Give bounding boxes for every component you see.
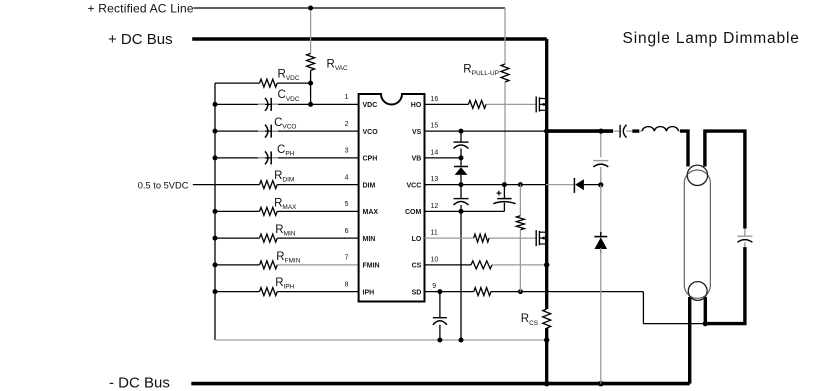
resistor R_FMIN: [260, 261, 278, 269]
wire DIM input line: [193, 184, 359, 186]
svg-text:DIM: DIM: [363, 182, 376, 189]
label R_DIM: [274, 170, 294, 184]
wire FMIN pin line: [215, 264, 359, 266]
wire HO gate line: [425, 103, 537, 105]
wire + Rectified AC Line: [194, 7, 506, 9]
wire R_PULL-UP bottom lead: [504, 82, 506, 185]
diode D_boot: [454, 158, 468, 185]
capacitor C_VCO: [258, 125, 278, 138]
label R_MIN: [275, 224, 296, 238]
wire LO gate line: [425, 237, 537, 239]
wire SD lamp-sense corner: [643, 292, 705, 324]
svg-text:IPH: IPH: [363, 289, 375, 296]
resistor R_PULL-UP: [501, 64, 509, 82]
wire IPH pin line: [215, 291, 359, 293]
svg-text:12: 12: [431, 203, 439, 210]
capacitor C_DC blocking: [613, 125, 632, 138]
node left bus junctions: [213, 102, 218, 294]
svg-text:+ DC Bus: + DC Bus: [108, 31, 173, 48]
node COM junction: [459, 209, 464, 214]
transistor M1 high-side MOSFET: [536, 96, 547, 112]
node VS junction: [459, 128, 550, 133]
wire VCO pin line: [215, 130, 359, 132]
IC pin name labels: [363, 102, 422, 296]
label + Rectified AC Line: [88, 1, 194, 15]
label C_VDC: [278, 89, 300, 103]
capacitor C_SD: [433, 292, 447, 340]
wire VDC pin line: [215, 103, 359, 105]
capacitor C_VCC ceramic: [454, 185, 469, 212]
resistor R_MAX: [260, 207, 278, 215]
wire half-bridge vertical rail: [545, 39, 548, 384]
wire COM return bottom: [215, 339, 547, 341]
node SD junctions: [437, 289, 523, 294]
svg-text:- DC Bus: - DC Bus: [109, 375, 170, 391]
resistor R_VCC-SD vertical: [516, 185, 524, 292]
svg-text:Single Lamp Dimmable: Single Lamp Dimmable: [623, 30, 800, 47]
label 0.5 to 5VDC: [138, 181, 189, 191]
label R_VDC: [278, 68, 300, 82]
node bottom line junctions: [437, 337, 549, 342]
label title Single Lamp Dimmable: [623, 30, 800, 47]
capacitor C_RES resonant: [737, 229, 752, 248]
wire charge pump bottom: [600, 248, 602, 384]
svg-text:16: 16: [431, 96, 439, 103]
wire R_VAC bottom lead: [310, 70, 312, 104]
wire SD pin line: [425, 291, 644, 293]
wire charge pump mid: [600, 185, 602, 237]
svg-text:+ Rectified AC Line: + Rectified AC Line: [88, 1, 194, 15]
svg-text:13: 13: [431, 176, 439, 183]
label C_PH: [277, 144, 295, 158]
svg-text:14: 14: [431, 150, 439, 157]
resistor R_DIM: [260, 181, 278, 189]
svg-text:LO: LO: [412, 236, 422, 243]
wire lamp top-right loop: [705, 131, 745, 228]
resistor R_VDC line: [215, 82, 311, 84]
op-amp U1 ballast control IC: [359, 94, 425, 302]
svg-text:10: 10: [431, 257, 439, 264]
wire VB pin line: [425, 157, 462, 159]
svg-text:CPH: CPH: [363, 156, 378, 163]
label R_IPH: [275, 277, 294, 291]
transistor M2 low-side MOSFET: [536, 230, 547, 246]
wire snubber top lead: [600, 131, 602, 157]
resistor R_CS: [543, 309, 551, 328]
node CS junction: [544, 262, 549, 267]
wire MAX pin line: [215, 210, 359, 212]
svg-text:4: 4: [345, 174, 349, 181]
IC pin numbers: [345, 94, 439, 290]
resistor R_HO gate: [468, 100, 486, 108]
svg-text:VCO: VCO: [363, 129, 379, 136]
svg-text:6: 6: [345, 228, 349, 235]
wire left bias bus: [214, 83, 216, 340]
capacitor C_PH: [258, 151, 278, 164]
wire R_VAC top lead: [310, 8, 312, 54]
label R_PULL-UP: [463, 64, 499, 78]
wire VS pin line: [425, 130, 547, 132]
svg-text:MAX: MAX: [363, 209, 379, 216]
svg-text:SD: SD: [412, 289, 422, 296]
svg-text:11: 11: [431, 230, 438, 237]
node VCC junctions: [459, 182, 523, 187]
node lamp bottom-right junction: [703, 321, 708, 326]
wire CS pin line: [425, 264, 547, 266]
wire -DC Bus: [191, 382, 689, 386]
resistor R_CS filter: [471, 261, 492, 269]
resistor R_SD: [474, 288, 491, 296]
svg-text:FMIN: FMIN: [363, 263, 380, 270]
inductor L_RES: [639, 127, 680, 132]
svg-text:CS: CS: [412, 263, 422, 270]
resistor R_MIN: [260, 234, 278, 242]
label R_CS: [521, 313, 539, 327]
svg-text:3: 3: [345, 148, 349, 155]
svg-text:1: 1: [345, 94, 349, 101]
wire rectified line corner down: [504, 8, 506, 64]
wire inductor left stub: [632, 129, 639, 132]
wire VS output (thick): [547, 129, 613, 133]
resistor R_VDC: [260, 79, 278, 87]
label - DC Bus: [109, 375, 170, 391]
node charge-pump junction: [598, 182, 603, 187]
label + DC Bus: [108, 31, 173, 48]
wire lamp bottom-left lead: [688, 297, 691, 384]
wire lamp bottom-right loop: [705, 247, 745, 324]
wire lamp bottom-right lead: [704, 297, 707, 324]
label R_MAX: [274, 198, 297, 212]
label R_FMIN: [276, 251, 301, 265]
wire +DC Bus: [192, 37, 547, 41]
node snubber top: [598, 129, 603, 134]
resistor R_VAC: [307, 54, 315, 71]
svg-text:MIN: MIN: [363, 236, 376, 243]
wire VCC pin line: [425, 184, 575, 186]
svg-text:8: 8: [345, 281, 349, 288]
wire lamp top-left lead: [680, 131, 688, 166]
svg-text:VDC: VDC: [363, 102, 378, 109]
capacitor C_SNUB: [593, 161, 608, 185]
svg-text:9: 9: [432, 283, 436, 290]
wire COM chain down: [460, 211, 462, 340]
capacitor C_VDC: [258, 98, 278, 111]
svg-text:5: 5: [345, 201, 349, 208]
wire CPH pin line: [215, 157, 359, 159]
wire COM pin line: [425, 210, 505, 212]
diode D_CP1: [574, 178, 600, 193]
capacitor C_VB bootstrap: [454, 131, 469, 158]
resistor R_LO gate: [474, 234, 489, 242]
resistor R_IPH: [260, 288, 278, 296]
svg-text:HO: HO: [411, 102, 422, 109]
svg-text:VCC: VCC: [407, 182, 422, 189]
svg-text:15: 15: [431, 123, 439, 130]
svg-text:COM: COM: [405, 209, 422, 216]
svg-text:7: 7: [345, 255, 349, 262]
node R_VAC junctions: [308, 6, 313, 107]
wire MIN pin line: [215, 237, 359, 239]
capacitor C_VCC2 electrolytic: [493, 185, 515, 212]
svg-text:VB: VB: [412, 156, 422, 163]
svg-text:VS: VS: [412, 129, 422, 136]
node VB junction: [459, 155, 464, 160]
label R_VAC: [327, 59, 349, 73]
diode D_CP2: [594, 232, 607, 254]
node -DC junctions: [544, 381, 604, 387]
label C_VCO: [274, 117, 296, 131]
svg-text:0.5 to 5VDC: 0.5 to 5VDC: [138, 181, 189, 191]
lamp fluorescent tube: [684, 165, 710, 300]
svg-text:2: 2: [345, 121, 349, 128]
